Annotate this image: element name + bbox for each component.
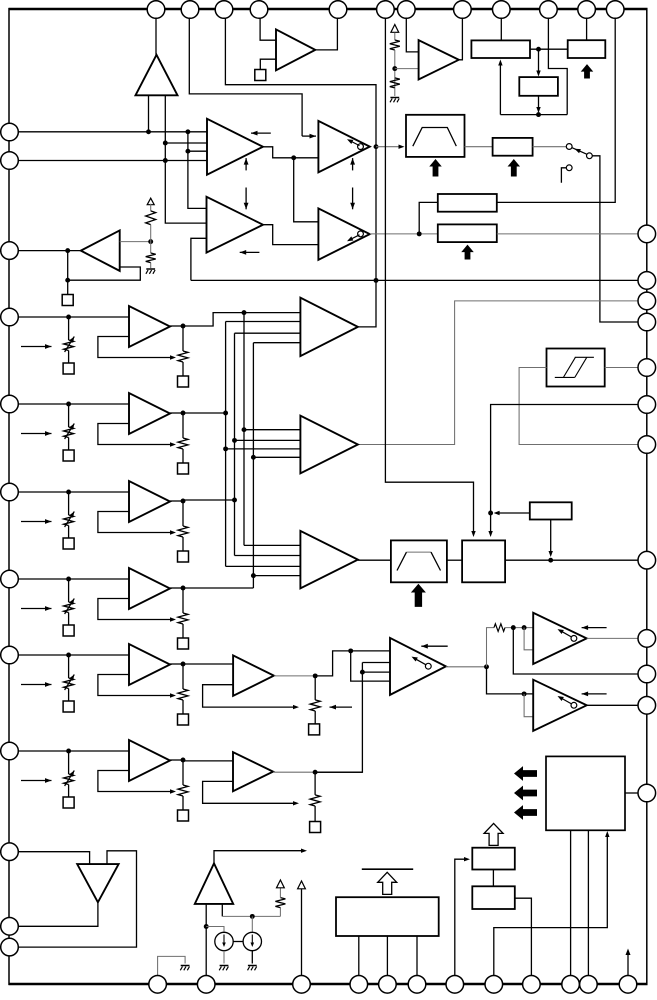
wire BR leg 2 to pin B11 — [587, 830, 589, 975]
wire pin1 to U3 input — [155, 12, 157, 56]
wire input line L1 from pin IN-A — [10, 131, 207, 133]
junction VCA1 input b — [522, 625, 527, 630]
junction RB input node — [417, 231, 422, 236]
arrow down between OP3 and OP4 — [352, 188, 354, 210]
junction CH6 input divider — [66, 749, 71, 754]
bus B2 tap to MIX2 — [235, 439, 301, 441]
resistor CH3 feedback — [178, 526, 188, 537]
op-amp BA (up-pointing) — [195, 863, 233, 904]
resistor CH1 feedback — [178, 351, 188, 362]
wire CH1A feedback loop — [98, 337, 170, 358]
resistor divider lower — [390, 78, 400, 88]
OP3 inversion bubble — [358, 144, 364, 150]
wire CH4 divider upper — [68, 579, 70, 602]
bus B1 tap to MIX2 — [226, 448, 301, 450]
arrow annotation CH4 input — [21, 608, 52, 610]
op-amp OP2 — [207, 197, 264, 253]
junction amp M input node — [348, 648, 353, 653]
junction M output node — [484, 664, 489, 669]
wire switch output to pin R4 — [592, 156, 638, 322]
variable resistor CH4 input — [64, 602, 74, 613]
ground DV2 — [146, 268, 155, 270]
rect RC — [472, 848, 515, 870]
bold arrow below BPF2 — [411, 584, 426, 607]
op-amp VCA1 — [533, 613, 587, 664]
junction INV output divider — [148, 239, 153, 244]
op-amp OP4 (VCA) — [318, 208, 369, 259]
wire SR2 output arrow to junction — [498, 512, 530, 514]
resistor CH5 feedback — [178, 689, 188, 700]
wire pin L3 to inverter INV — [10, 250, 81, 252]
wire U3 output leg A — [148, 95, 150, 132]
junction L2 tap — [163, 141, 168, 146]
op-amp OP1 — [207, 119, 263, 175]
bus B3 tap to MIX2 — [244, 429, 300, 431]
wire BX leg 2 — [386, 936, 388, 976]
wire pin P6 vertical to DET box — [385, 12, 473, 532]
ground pin B1 net — [181, 965, 190, 967]
rect MR — [519, 77, 558, 96]
wire link CS1-CS2 — [233, 941, 243, 943]
wire RC to RD — [492, 870, 494, 887]
op-amp CH3A — [129, 481, 170, 522]
op-amp DT (down-pointing) — [77, 864, 118, 902]
pad square CH1 feedback — [178, 376, 189, 387]
wire CH2 divider upper — [68, 404, 70, 427]
wire CH3A output — [170, 500, 183, 502]
wire M output node up to resistor RG grey — [487, 628, 495, 667]
wire OP1 output to OP3 input — [263, 147, 318, 158]
wire U3 output leg B to op-amp OP2 input — [165, 95, 206, 223]
switch lever with arrowhead — [572, 148, 589, 156]
junction CH1 output on bus B3 — [242, 310, 247, 315]
junction DET input — [488, 511, 493, 516]
wire M input line from node — [351, 650, 390, 652]
junction CH5 input divider — [66, 653, 71, 658]
arrow annotation left of OP1 apex — [251, 132, 271, 134]
wire CH2 feedback resistor bottom — [182, 449, 184, 463]
wire INV output to divider node — [120, 241, 151, 243]
junction x376 at y280 line — [374, 278, 379, 283]
op-amp CH5B — [233, 655, 274, 696]
wire MIX2 output grey up to pin R3 — [358, 301, 638, 445]
switch pole contact — [566, 144, 572, 150]
hysteresis symbol — [555, 376, 575, 378]
wire loop up into R1 bottom — [499, 65, 501, 115]
pad square CH1 input divider — [63, 363, 74, 374]
arrow annotation CH2 input — [21, 433, 52, 435]
wire pin L12 loop to DT input — [10, 851, 137, 947]
wire CH6A feedback loop — [98, 771, 170, 792]
bold arrow below R2 — [581, 64, 594, 78]
wire pin7 to U1 input — [406, 12, 418, 52]
wire CH4 feedback resistor top — [182, 588, 184, 613]
detector box DET — [462, 540, 505, 582]
OP4 inversion bubble — [358, 231, 364, 237]
switch throw contact — [587, 153, 593, 159]
VCA1 gain-control diagonal arrow — [560, 630, 572, 637]
wire pin11 to rect R2 top — [586, 12, 588, 40]
wire CH1 divider lower — [68, 351, 70, 364]
pins left edge — [1, 123, 19, 141]
wire RB1 to supply arrow grey — [279, 888, 281, 898]
mixer amp MIX1 — [300, 298, 358, 356]
wire pin3 to main vertical bus x376 — [225, 12, 376, 327]
wire CH4 output to bus B4 — [183, 587, 253, 589]
wire CH6A output into CH6B — [183, 760, 233, 762]
wire junction down to OP4 input — [294, 158, 319, 222]
pad square INV — [62, 295, 73, 306]
wire SR1 to switch grey — [533, 146, 567, 148]
wire BPF2 to DET — [447, 559, 462, 561]
resistor CH5B divider — [310, 700, 320, 711]
wire pin CH5 input line — [10, 654, 129, 656]
wire CH6B feedback loop — [203, 781, 294, 803]
bold arrow below BPF1 — [429, 159, 442, 177]
wire RD right to pin B9 — [515, 898, 532, 975]
wire pin B1 to ground grey — [158, 956, 186, 975]
junction CH6A output — [181, 758, 186, 763]
junction CH5A output — [181, 662, 186, 667]
arrow annotation CH6 input — [21, 780, 52, 782]
mixer amp MIX3 — [300, 531, 358, 589]
pad square CH4 input divider — [63, 625, 74, 636]
resistor divider upper — [390, 40, 400, 50]
arrow annotation CH5 input — [21, 684, 52, 686]
wire CH5A output — [170, 663, 183, 665]
pad square CH2 input divider — [63, 450, 74, 461]
junction CH2A output — [181, 411, 186, 416]
wire RA right to pin6 vertical — [497, 12, 615, 202]
arrow annotation right of VCA1 — [582, 627, 607, 629]
junction VCA1 input a — [511, 625, 516, 630]
wire R1 to R2 — [530, 48, 568, 50]
wire CH6 divider lower — [68, 785, 70, 798]
wire BA leg to current source CS1 grey — [206, 927, 224, 933]
BPF1 response curve — [413, 128, 457, 147]
pad square CH2 feedback — [178, 463, 189, 474]
wire OP3 output grey to band-pass filter BPF1 — [376, 146, 400, 148]
wire CH3 feedback resistor bottom — [182, 537, 184, 551]
wire CH6 feedback resistor top — [182, 760, 184, 785]
supply arrow above divider DV2 — [147, 198, 154, 205]
wire CH5B output to amp M node — [315, 651, 351, 676]
wire CH1 output jog to MIX1 input — [183, 313, 300, 326]
wire BX leg 1 — [358, 936, 360, 976]
wire CH2 output to bus B1 — [183, 412, 226, 414]
wire pin CH4 input line — [10, 578, 129, 580]
wire OP4 output grey to rect RB — [370, 233, 438, 235]
switch unused contact — [566, 165, 572, 171]
junction CH4 input divider — [66, 577, 71, 582]
wire VCA1 output grey to pin R9 — [587, 637, 638, 639]
junction CH4A output — [181, 586, 186, 591]
M gain-control diagonal arrow — [414, 658, 427, 665]
pad square CH5 input divider — [63, 701, 74, 712]
wire M input node down to M lower input — [351, 651, 390, 681]
variable resistor CH2 input — [64, 427, 74, 438]
wire CH3 feedback resistor top — [182, 501, 184, 526]
wire CH6B output up to amp M pi inputs — [362, 662, 390, 664]
op-amp INV (left-pointing) — [81, 230, 120, 271]
junction VCA2 input — [522, 691, 527, 696]
wire MIX3 output line — [358, 559, 391, 561]
wire BA leg left to bottom pin B2 — [205, 904, 207, 976]
junction L3 tap — [185, 149, 190, 154]
wire loop line — [500, 114, 567, 116]
junction x376 at OP3 output — [374, 144, 379, 149]
pins right edge — [638, 225, 656, 243]
wire DV2 mid grey — [150, 225, 152, 253]
op-amp CH2A — [129, 393, 170, 434]
wire M output node down to VCA2 input — [487, 667, 534, 694]
junction OP1 output node — [291, 155, 296, 160]
interface box BR — [546, 756, 625, 830]
supply arrow above pin B3 line — [298, 881, 306, 889]
wire INV feedback to pad — [67, 280, 69, 294]
wire CH3 divider upper — [68, 492, 70, 515]
wire BA output up and right with arrow — [214, 851, 302, 864]
junction CH6B divider — [313, 770, 318, 775]
arrow up between OP3 and OP4 — [352, 158, 354, 170]
junction L4 tap — [163, 158, 168, 163]
M inversion bubble — [425, 663, 431, 669]
band-pass filter BPF1 box — [406, 115, 465, 157]
wire stub at unused contact — [561, 168, 566, 183]
wire CH6B divider bottom — [314, 806, 316, 822]
wire CH6B output — [315, 771, 362, 773]
resistor CH6 feedback — [178, 785, 188, 796]
reference box BX — [336, 897, 439, 936]
junction output line tap — [548, 558, 553, 563]
wire pin B8 to OSC arrow into BR — [494, 836, 608, 976]
pad square CH5 feedback — [178, 714, 189, 725]
wire CH5B divider top — [314, 676, 316, 700]
wire CS2 to ground — [251, 951, 253, 964]
wire CH6 feedback resistor bottom — [182, 796, 184, 810]
supply arrow above RB1 — [277, 880, 285, 888]
junction L1-vertical — [185, 129, 190, 134]
bus B4 tap to MIX3 — [253, 575, 300, 577]
VCA1 inversion bubble — [571, 636, 577, 642]
wire U2 second input from pad — [260, 59, 276, 69]
arrow annotation above M apex — [421, 645, 447, 647]
wire DV2 top grey — [150, 204, 152, 211]
wire BR leg 1 to pin B10 — [570, 830, 572, 975]
wire CH1A output — [170, 325, 183, 327]
wire U1 output to pin8 — [459, 12, 463, 60]
wire CH2 divider lower — [68, 438, 70, 451]
rect R2 — [568, 40, 606, 58]
wire CH5 divider upper — [68, 655, 70, 678]
wire CH2 feedback resistor top — [182, 413, 184, 438]
wire OP2 output to OP4 input — [263, 225, 318, 245]
wire input line L4 from pin IN-B — [10, 160, 207, 162]
wire RB output grey to pin R1 — [497, 233, 638, 235]
wire CH2A feedback loop — [98, 424, 170, 445]
wire CH5B feedback loop — [203, 685, 294, 707]
wire VCA2 feedback grey — [524, 694, 533, 717]
wire RA left to RB junction — [419, 202, 438, 234]
variable resistor CH3 input — [64, 515, 74, 526]
junction INV feedback — [65, 278, 70, 283]
resistor CH2 feedback — [178, 438, 188, 449]
wire pin2 to OP3 control input — [189, 12, 302, 136]
junction CH1A output — [181, 324, 186, 329]
OP4 gain-control diagonal arrow — [349, 235, 360, 241]
bold arrow below SR1 — [508, 159, 521, 177]
wire pin4 to U2 input — [260, 12, 276, 40]
pad square CH6 feedback — [178, 810, 189, 821]
bus line B3 — [243, 313, 245, 546]
bold left arrow 3 — [514, 805, 537, 820]
block arrow above rect RC — [484, 823, 503, 845]
wire bias rail up to resistor RB1 grey — [279, 908, 281, 917]
bold left arrow 2 — [514, 786, 537, 801]
wire pin R10 to VCA1 input node — [513, 628, 638, 674]
junction INV input — [65, 248, 70, 253]
wire DT output to pin L11 — [10, 902, 98, 926]
wire CH4A feedback loop — [98, 599, 170, 620]
wire pin B3 to supply arrow — [301, 889, 303, 976]
ground CS1 — [220, 965, 229, 967]
wire HY left grey loop to pin R7 — [519, 368, 638, 445]
ground CS2 — [248, 965, 257, 967]
op-amp CH1A — [129, 306, 170, 347]
wire divider to ground — [394, 88, 396, 96]
wire CH6B divider top — [314, 772, 316, 795]
pad square CH3 feedback — [178, 551, 189, 562]
wire pin10 to loop line — [548, 12, 567, 115]
bus line B2 — [235, 332, 301, 334]
overline above BX — [362, 868, 413, 870]
pad square CH4 feedback — [178, 638, 189, 649]
junction CH5B divider — [313, 673, 318, 678]
supply arrow above divider R-R — [391, 25, 399, 33]
wire CH5 feedback resistor bottom — [182, 700, 184, 714]
IC package border right — [646, 8, 648, 985]
pins bottom edge — [149, 976, 167, 994]
wire CH1 feedback resistor bottom — [182, 362, 184, 376]
wire CH5B divider bottom — [314, 711, 316, 724]
junction loop line — [536, 112, 541, 117]
wire OP2 feedback input from y280 line — [191, 238, 207, 280]
wire pin9 to rect R1 top — [500, 12, 502, 40]
bus line B4 — [253, 342, 300, 344]
wire pin B7 up to RC with arrow — [455, 859, 465, 975]
op-amp U3 (up-pointing buffer) — [136, 55, 178, 96]
pad square at U2 input — [255, 70, 266, 81]
rect SR1 — [493, 138, 533, 156]
OP3 gain-control diagonal arrow — [349, 140, 360, 146]
pad square CH6B divider — [310, 822, 321, 833]
BPF2 response curve — [397, 552, 407, 570]
wire divider top — [394, 33, 396, 41]
wire HY right grey to pin R5 — [605, 367, 638, 369]
arrow annotation below OP2 — [240, 251, 260, 253]
op-amp CH5A — [129, 644, 170, 685]
wire RG to VCA1 input grey — [505, 627, 533, 629]
resistor RB1 grey — [275, 898, 285, 908]
bold left arrow 1 — [514, 766, 537, 781]
variable resistor CH1 input — [64, 340, 74, 351]
mixer amp MIX2 — [300, 416, 358, 474]
arrow up between OP1 and OP2 — [245, 158, 247, 170]
resistor RG horizontal — [494, 624, 505, 632]
wire CH2A output — [170, 412, 183, 414]
ground of divider — [390, 97, 399, 99]
resistor CH6B divider — [310, 795, 320, 806]
wire pin CH6 input line — [10, 750, 129, 752]
current source CS2 — [243, 932, 261, 950]
wire BR to pin R12 — [625, 792, 638, 794]
op-amp CH4A — [129, 568, 170, 609]
rect R1 — [471, 40, 530, 58]
wire MR down to loop line — [538, 96, 540, 108]
variable resistor CH6 input — [64, 774, 74, 785]
junction bias rail — [250, 914, 255, 919]
pad square CH3 input divider — [63, 538, 74, 549]
junction divider mid — [392, 66, 397, 71]
op-amp CH6B — [233, 752, 273, 791]
wire pin CH1 input line — [10, 316, 129, 318]
rect RD — [472, 886, 515, 909]
wire CH5 feedback resistor top — [182, 664, 184, 689]
arrow annotation CH1 input — [21, 346, 52, 348]
band-pass filter BPF2 box — [391, 540, 447, 582]
wire feedback line y280 to pin R2 — [191, 279, 638, 281]
wire divider middle — [394, 50, 396, 88]
rect SR2 — [530, 502, 572, 519]
wire CH3 divider lower — [68, 526, 70, 539]
wire junction to current source CS2 — [251, 916, 253, 932]
arrow into OP3 control input — [302, 135, 316, 137]
wire M output grey — [446, 666, 487, 668]
resistor DV2 lower grey — [146, 253, 156, 263]
wire input line L2 — [165, 142, 207, 144]
junction CH1 input divider — [66, 315, 71, 320]
arrow annotation right of CH5 resistor — [330, 706, 353, 708]
arrow annotation CH3 input — [21, 521, 52, 523]
junction BA leg — [204, 924, 209, 929]
wire DET to pin R8 — [505, 559, 638, 561]
bold arrow below RB — [461, 245, 474, 260]
op-amp U1 — [419, 40, 459, 79]
wire U2 output to pin5 — [315, 12, 337, 50]
resistor CH4 feedback — [178, 613, 188, 624]
wire CH4 feedback resistor bottom — [182, 624, 184, 638]
wire CH4 divider lower — [68, 613, 70, 626]
wire CH3 output to bus B2 — [183, 499, 235, 501]
wire CH5A output into CH5B — [183, 663, 233, 665]
rect RB — [438, 224, 497, 242]
wire pin B12 stub with up arrow — [627, 954, 629, 976]
variable resistor CH5 input — [64, 678, 74, 689]
bus B4 tap to MIX2 — [253, 456, 300, 458]
IC package border top — [9, 8, 648, 10]
wire CH3A feedback loop — [98, 512, 170, 533]
wire divider mid to U1 input — [395, 68, 419, 70]
wire pin R6 to detector box DET — [491, 405, 638, 533]
op-amp CH6A — [129, 740, 170, 781]
rect RA — [438, 194, 497, 212]
wire CH6A output — [170, 759, 183, 761]
op-amp OP3 (VCA) — [318, 121, 369, 172]
wire CH5 divider lower — [68, 689, 70, 702]
pins top edge — [147, 1, 165, 19]
wire CS1 to ground grey — [223, 951, 225, 964]
junction CH2 input divider — [66, 402, 71, 407]
